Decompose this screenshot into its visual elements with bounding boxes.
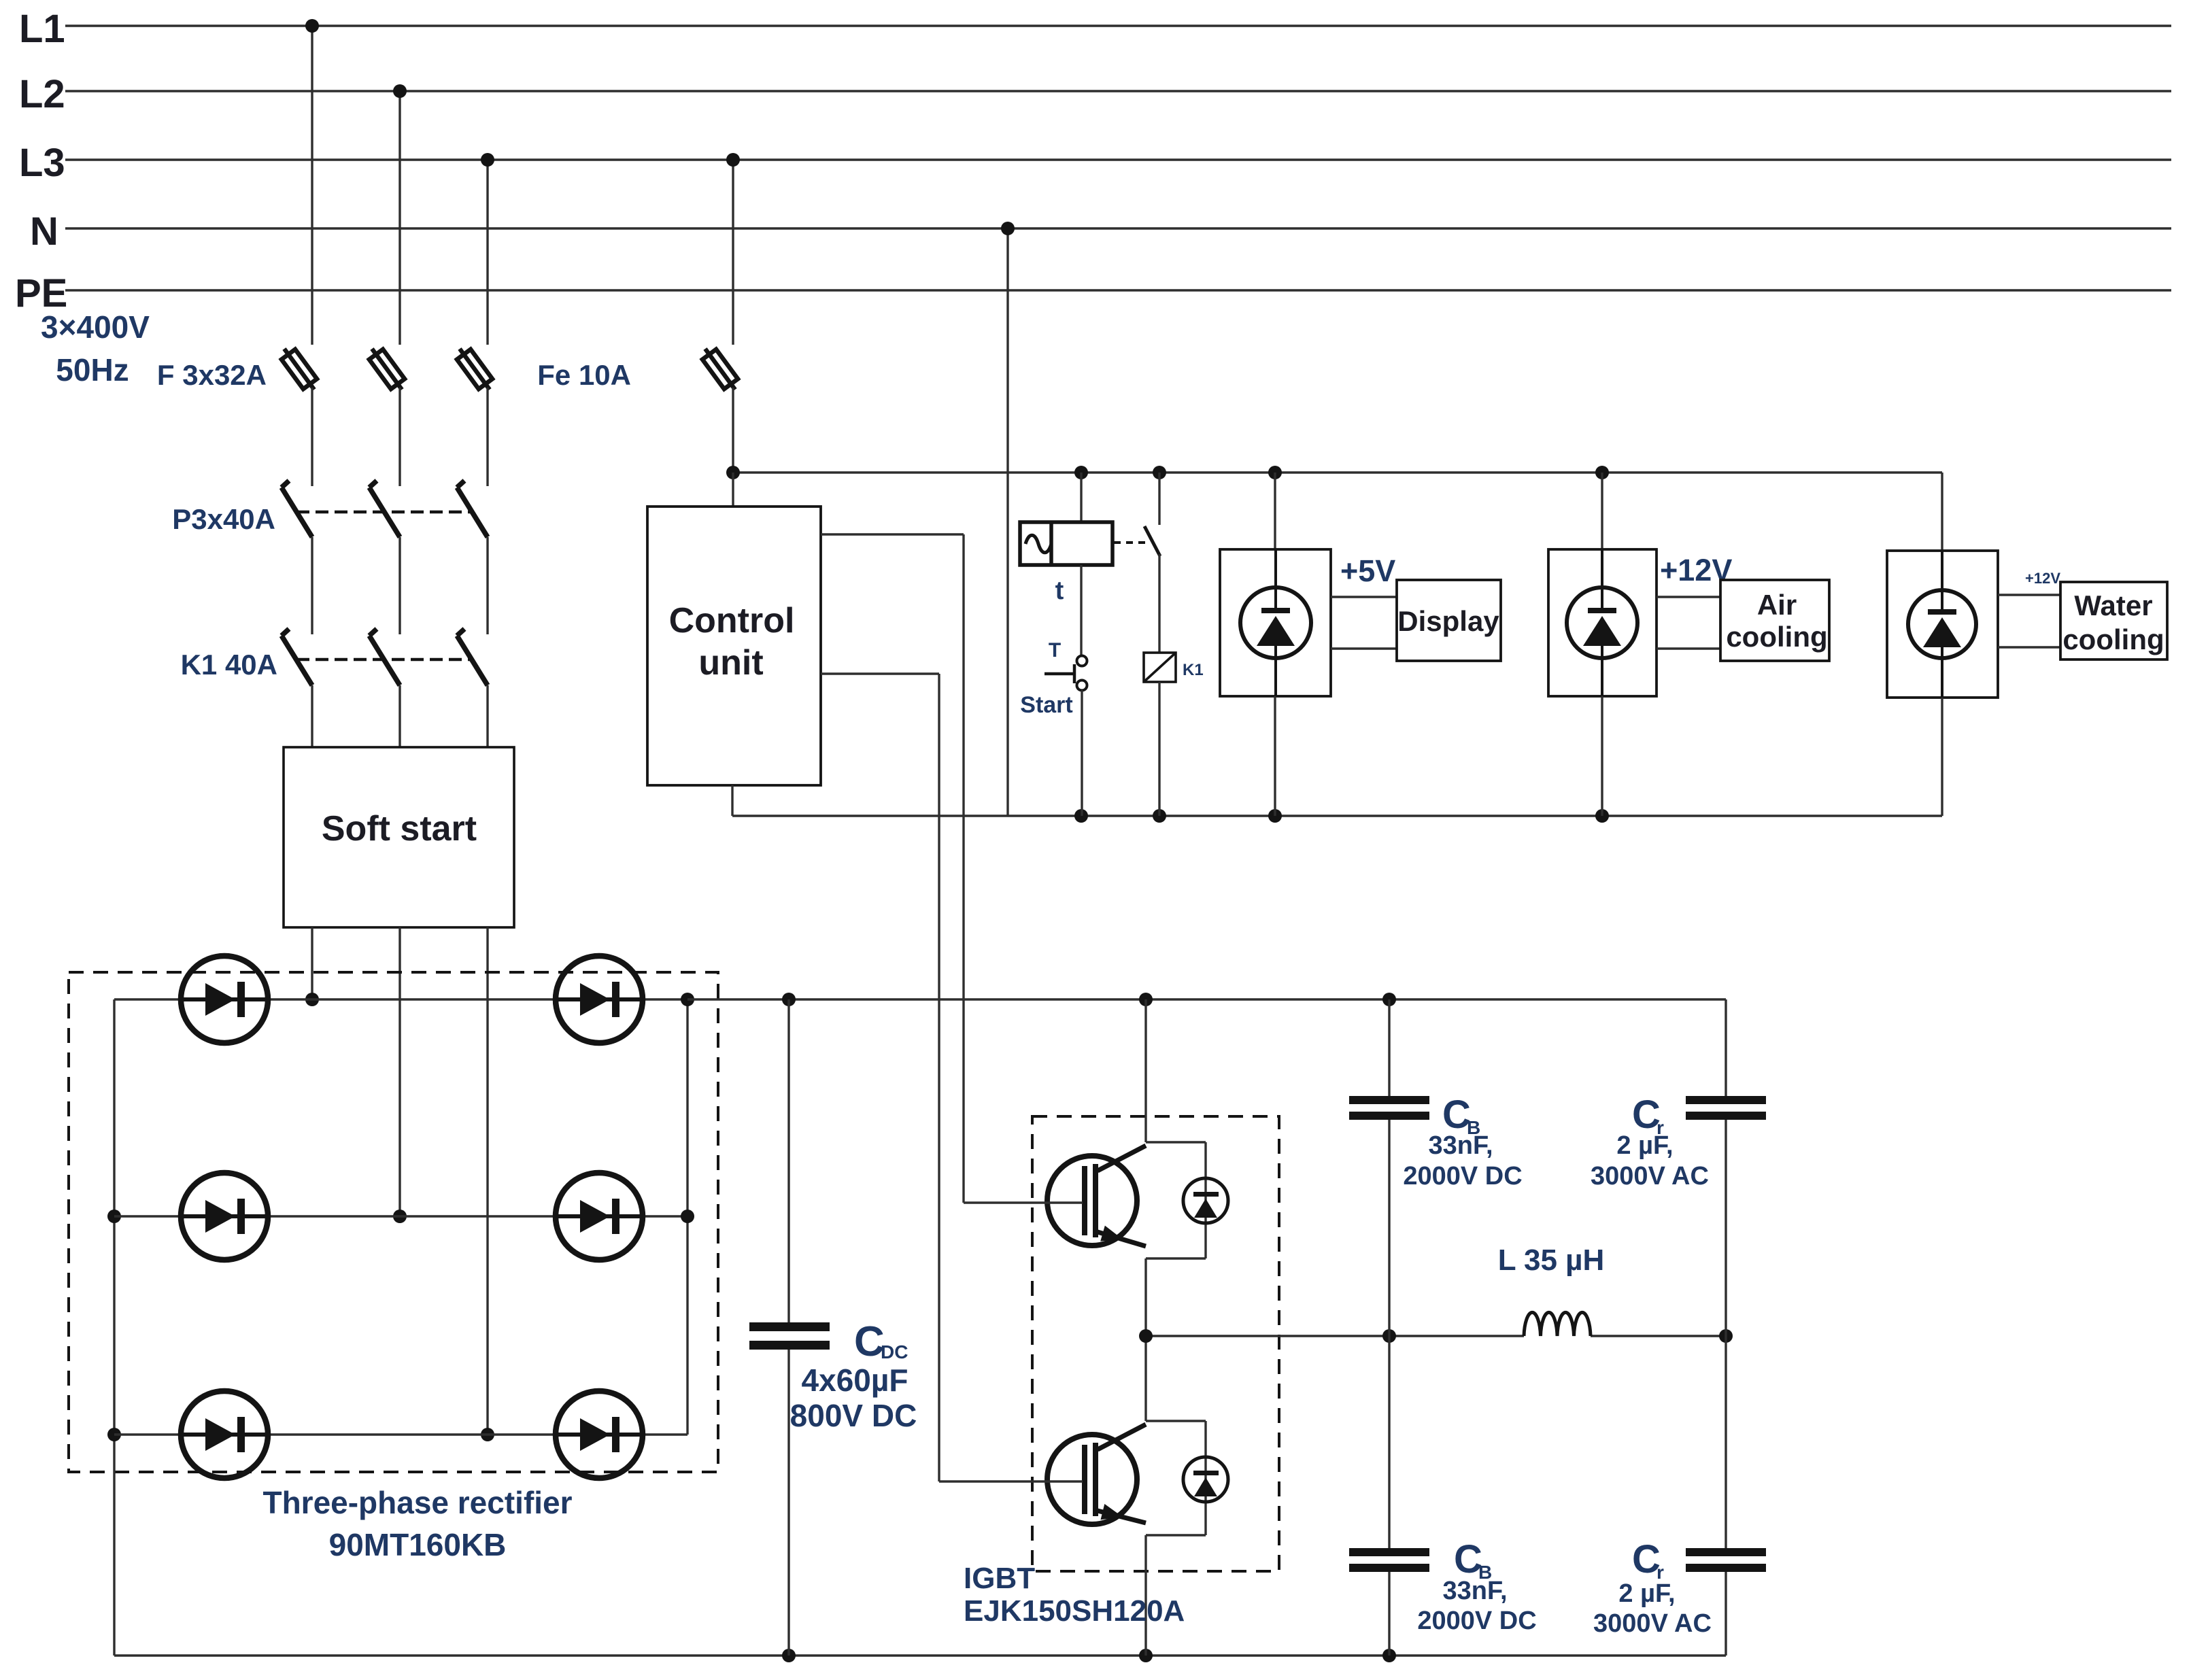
node L3 supply line	[19, 141, 2171, 185]
igbt Q2 collector wire	[1144, 1336, 1147, 1421]
svg-text:3000V AC: 3000V AC	[1591, 1162, 1709, 1190]
label +5V	[1340, 553, 1395, 588]
fuse F1 (phase L1)	[282, 349, 317, 486]
svg-text:+12V: +12V	[2025, 570, 2060, 587]
igbt Q1 collector wire	[1144, 999, 1147, 1142]
psu U1 (+5V supply)	[1220, 549, 1331, 696]
IGBT dashed outline	[1032, 1116, 1279, 1571]
fuse F3 (phase L3)	[457, 349, 492, 486]
inductor L 35uH	[1498, 1244, 1605, 1336]
svg-text:2000V DC: 2000V DC	[1403, 1162, 1522, 1190]
breaker P2 pole	[369, 481, 400, 634]
wire phase L3 drop to fuse	[481, 153, 494, 345]
diode D4	[556, 956, 643, 1043]
wire soft start to rectifier row3	[481, 927, 494, 1441]
igbt Q2 emitter wire	[1144, 1535, 1147, 1656]
wire control top bus	[726, 466, 1942, 479]
wire start button to bottom bus	[1081, 690, 1083, 816]
capacitor C_DC	[749, 999, 830, 1656]
svg-text:Air: Air	[1757, 589, 1797, 621]
label P3x40A	[172, 503, 275, 535]
wire control bottom bus	[732, 809, 1942, 823]
breaker P1 pole	[282, 481, 312, 634]
capacitor C_B top	[1349, 999, 1429, 1336]
svg-text:33nF,: 33nF,	[1428, 1131, 1493, 1160]
label Three-phase rectifier	[262, 1485, 572, 1562]
wire rectifier row 2	[114, 1215, 687, 1217]
capacitor C_r top	[1686, 999, 1766, 1336]
svg-text:L3: L3	[19, 141, 65, 185]
label C_B bottom	[1417, 1537, 1536, 1635]
wire timer to start button	[1080, 565, 1082, 655]
diode D6	[556, 1391, 643, 1478]
fuse Fe	[702, 349, 738, 473]
pushbutton Start contacts	[1044, 656, 1087, 691]
svg-text:2000V DC: 2000V DC	[1417, 1607, 1536, 1635]
svg-text:800V DC: 800V DC	[790, 1398, 917, 1433]
igbt Q1 emitter wire	[1144, 1258, 1147, 1336]
psu U2 (+12V supply)	[1548, 549, 1657, 696]
svg-text:Start: Start	[1020, 692, 1072, 718]
svg-text:Display: Display	[1397, 605, 1499, 637]
diode D2	[181, 1173, 268, 1260]
igbt Q2 with antiparallel diode	[1047, 1421, 1228, 1535]
label +12V water	[2025, 570, 2060, 587]
wire rectifier row 3	[114, 1433, 687, 1435]
wire DC- rail	[114, 1649, 1726, 1662]
control unit box	[647, 507, 821, 785]
wire control unit feed	[732, 473, 734, 507]
air cooling box	[1720, 580, 1829, 661]
svg-text:90MT160KB: 90MT160KB	[329, 1527, 507, 1562]
node N supply line	[30, 209, 2171, 254]
label C_r top	[1591, 1093, 1709, 1190]
svg-text:K1: K1	[1183, 661, 1204, 679]
label C_B top	[1403, 1093, 1522, 1190]
svg-text:EJK150SH120A: EJK150SH120A	[964, 1594, 1185, 1628]
wire psu U2 to bottom bus	[1601, 696, 1603, 816]
svg-text:Control: Control	[669, 601, 795, 640]
svg-text:F 3x32A: F 3x32A	[157, 359, 267, 391]
soft start box	[284, 747, 514, 927]
svg-text:3×400V: 3×400V	[41, 309, 150, 345]
node L1 supply line	[19, 7, 2171, 51]
wire psu U1 to display (2)	[1331, 597, 1397, 649]
contactor K1 pole b	[369, 629, 400, 747]
label IGBT EJK150SH120A	[964, 1562, 1185, 1628]
capacitor C_B bottom	[1349, 1336, 1429, 1656]
node PE supply line	[15, 271, 2171, 315]
timer relay coil t	[1020, 473, 1113, 565]
wire soft start to rectifier row1	[305, 927, 319, 1006]
wire soft start to rectifier row2	[393, 927, 407, 1223]
svg-text:L 35 µH: L 35 µH	[1498, 1244, 1605, 1277]
svg-text:L2: L2	[19, 72, 65, 116]
relay contact K1 (NO)	[1114, 473, 1160, 653]
wire phase L2 drop to fuse	[393, 84, 407, 345]
label t	[1055, 577, 1064, 605]
wire control output 2 (gate drive Q2)	[821, 674, 1083, 1481]
svg-text:IGBT: IGBT	[964, 1562, 1035, 1595]
psu U3 (+12V supply)	[1887, 551, 1998, 698]
diode D5	[556, 1173, 643, 1260]
label C_r bottom	[1593, 1537, 1712, 1638]
svg-text:33nF,: 33nF,	[1442, 1577, 1507, 1605]
wire psu U3 to water cooling (2)	[1998, 595, 2060, 647]
display box	[1397, 580, 1501, 661]
wire DC+ rail	[687, 993, 1726, 1006]
diode D1	[181, 956, 268, 1043]
svg-text:N: N	[30, 209, 58, 254]
water cooling box	[2060, 582, 2167, 659]
node L2 supply line	[19, 72, 2171, 116]
contactor linkage (dashed)	[296, 658, 471, 662]
breaker P3 pole	[457, 481, 488, 634]
wire phase L1 drop to fuse	[305, 19, 319, 345]
wire psu U3 to bottom bus corner	[1941, 698, 1943, 816]
wire inverter mid rail	[1139, 1329, 1733, 1343]
svg-text:+5V: +5V	[1340, 553, 1395, 588]
svg-text:4x60µF: 4x60µF	[802, 1362, 908, 1398]
svg-text:Soft start: Soft start	[322, 809, 477, 848]
wire N drop to control bottom bus	[1001, 222, 1015, 816]
svg-text:3000V AC: 3000V AC	[1593, 1609, 1712, 1638]
label C_DC 4x60uF 800V DC	[790, 1318, 917, 1433]
wire top bus corner to psu U3	[1941, 473, 1943, 551]
wire psu U2 to air cooling (2)	[1657, 597, 1720, 649]
label F 3x32A	[157, 359, 267, 391]
contactor K1 pole c	[457, 629, 488, 747]
svg-text:cooling: cooling	[1726, 621, 1827, 653]
rectifier right bus (DC+)	[681, 993, 694, 1435]
wire K1 coil to bottom bus	[1158, 682, 1160, 816]
svg-text:2 µF,: 2 µF,	[1616, 1131, 1673, 1160]
svg-text:Water: Water	[2074, 589, 2152, 621]
svg-text:50Hz: 50Hz	[56, 352, 129, 388]
label +12V air	[1660, 553, 1732, 587]
wire control unit to bottom bus	[731, 785, 733, 816]
label Fe 10A	[537, 359, 631, 391]
svg-text:2 µF,: 2 µF,	[1618, 1579, 1675, 1608]
wire top bus to psu U2	[1601, 473, 1603, 549]
svg-text:unit: unit	[698, 643, 763, 683]
svg-text:cooling: cooling	[2062, 623, 2164, 655]
svg-text:Fe 10A: Fe 10A	[537, 359, 631, 391]
breaker linkage (dashed)	[296, 511, 471, 514]
diode D3	[181, 1391, 268, 1478]
svg-text:T: T	[1049, 639, 1061, 662]
svg-text:L1: L1	[19, 7, 65, 51]
wire control output 1 (gate drive Q1)	[821, 534, 1083, 1203]
svg-text:Three-phase rectifier: Three-phase rectifier	[262, 1485, 572, 1520]
svg-text:K1 40A: K1 40A	[181, 649, 277, 681]
igbt Q1 with antiparallel diode	[1047, 1142, 1228, 1258]
fuse Fe 10A tap on L3	[726, 153, 740, 345]
svg-text:t: t	[1055, 577, 1064, 605]
wire top bus to psu U1	[1274, 473, 1276, 549]
svg-text:P3x40A: P3x40A	[172, 503, 275, 535]
svg-text:DC: DC	[881, 1341, 908, 1362]
wire rectifier row 1	[114, 998, 687, 1000]
fuse F2 (phase L2)	[369, 349, 405, 486]
label K1 40A	[181, 649, 277, 681]
rectifier dashed outline	[69, 972, 718, 1472]
wire psu U1 to bottom bus	[1274, 696, 1276, 816]
rectifier left bus (DC-)	[107, 999, 121, 1656]
contactor K1 pole a	[282, 629, 312, 747]
label T	[1049, 639, 1061, 662]
label 3x400V 50Hz	[41, 309, 150, 388]
relay coil K1	[1144, 653, 1204, 682]
capacitor C_r bottom	[1686, 1336, 1766, 1656]
label Start	[1020, 692, 1072, 718]
